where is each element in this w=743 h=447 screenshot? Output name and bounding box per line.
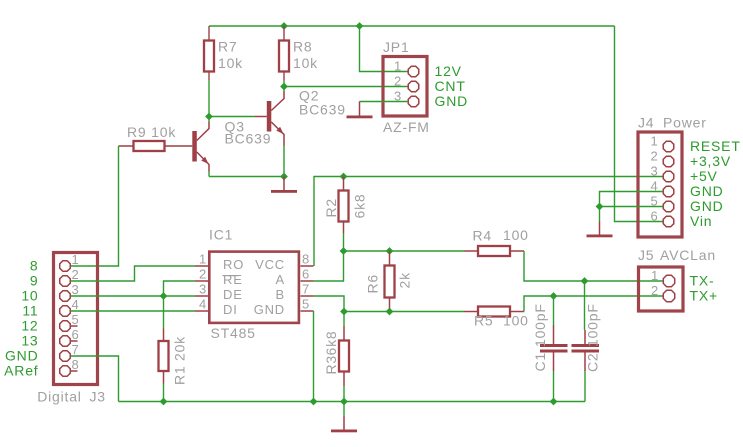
svg-text:BC639: BC639 [299, 102, 346, 118]
svg-text:ST485: ST485 [211, 325, 256, 341]
svg-text:2: 2 [394, 74, 402, 89]
wire IC1 GND to ground rail [313, 311, 315, 402]
pin number J5 2 [651, 283, 659, 298]
pin pad J4-6 [663, 216, 674, 227]
pin number J4 6 [650, 209, 658, 224]
svg-text:100: 100 [503, 227, 529, 243]
svg-text:Vin: Vin [690, 213, 712, 229]
svg-text:J4: J4 [638, 115, 654, 131]
pin number J4 3 [650, 164, 658, 179]
svg-text:BC639: BC639 [225, 131, 272, 147]
pin number IC1-3 [199, 282, 207, 297]
wire JP1 pin3 to ground [360, 101, 409, 103]
net label +3,3V J4-2 [690, 153, 731, 169]
svg-text:R1: R1 [172, 366, 188, 386]
connector J3 box [54, 253, 98, 385]
svg-text:10k: 10k [293, 55, 318, 71]
label IC1 value ST485 [211, 325, 256, 341]
svg-text:A: A [276, 272, 285, 287]
pin stub IC1-4 DI [195, 310, 208, 312]
svg-text:RO: RO [223, 257, 244, 272]
pin stub IC1-6 A [301, 280, 314, 282]
label Q3 [225, 118, 245, 134]
net label ARef [4, 363, 38, 379]
svg-text:9: 9 [30, 273, 39, 289]
svg-text:3: 3 [650, 164, 658, 179]
transistor Q2 base bar [267, 101, 272, 132]
svg-text:7: 7 [72, 342, 80, 357]
net label 8 [30, 258, 39, 274]
wire 12V top rail [209, 25, 615, 27]
transistor Q3 base bar [192, 131, 197, 162]
label R4 [473, 228, 493, 244]
label Digital [37, 389, 82, 405]
wire J4 GND pin5 [600, 206, 664, 208]
svg-text:DI: DI [223, 302, 238, 317]
wire J4 GND pin4 [600, 192, 664, 207]
svg-text:4: 4 [72, 297, 80, 312]
svg-text:1: 1 [651, 268, 659, 283]
label R1 value 20k [172, 336, 188, 361]
label J3 [90, 389, 106, 405]
label R7 value 10k [218, 55, 243, 71]
label R4 value 100 [503, 227, 529, 243]
pin number IC1-1 [199, 252, 207, 267]
wire B pin to node B [314, 296, 345, 312]
pin stub IC1-2 RE [195, 280, 208, 282]
pin number J4 4 [650, 179, 658, 194]
svg-text:DE: DE [223, 287, 243, 302]
resistor R1 [159, 296, 169, 402]
svg-text:10k: 10k [218, 55, 243, 71]
wire R9 to J3 pin 1 [71, 146, 119, 266]
pin stub IC1-8 VCC [301, 265, 314, 267]
svg-text:GND: GND [690, 198, 724, 214]
wire node B rail [344, 311, 464, 313]
net label 9 [30, 273, 39, 289]
net label TX- [690, 273, 715, 289]
transistor Q3 emitter [197, 152, 209, 177]
transistor Q2 emitter [271, 122, 284, 177]
node junction R1 bottom [160, 398, 168, 406]
svg-text:R6: R6 [365, 274, 381, 294]
pin label RE with overline [223, 272, 243, 287]
resistor R2 [339, 177, 349, 252]
net label TX+ [690, 288, 718, 304]
capacitor C1 [540, 296, 568, 402]
net label RESET J4-1 [690, 138, 741, 154]
pin pad JP1-1 [408, 66, 419, 77]
transistor Q3 collector [197, 117, 209, 141]
net label 12 [21, 318, 38, 334]
node junction B node [340, 308, 348, 316]
svg-text:2: 2 [72, 267, 80, 282]
pin number J3 1 [72, 252, 80, 267]
wire emitter rail [209, 176, 284, 178]
label R5 value 100 [503, 313, 529, 329]
pin label VCC [255, 257, 285, 272]
node junction IC1 GND bottom [310, 398, 318, 406]
svg-text:VCC: VCC [255, 257, 285, 272]
pin label DI [223, 302, 238, 317]
svg-text:AZ-FM: AZ-FM [383, 119, 430, 135]
label C2 value 100pF [585, 303, 601, 347]
ground at J4 [587, 207, 613, 238]
pin pad J3-3 [60, 291, 71, 302]
node junction TX+ at C1 [550, 292, 558, 300]
node junction VCC at R2 [340, 173, 348, 181]
svg-text:6: 6 [650, 209, 658, 224]
label IC1 [209, 227, 233, 243]
node junction R3 bottom [340, 398, 348, 406]
svg-text:B: B [276, 287, 285, 302]
pin number IC1-6 [302, 267, 310, 282]
node junction J4 GND [596, 203, 604, 211]
pin number JP1 2 [394, 74, 402, 89]
pin pad J4-1 [663, 141, 674, 152]
wire R4 to TX- [524, 251, 664, 281]
label R1 [172, 366, 188, 386]
pin stub IC1-3 DE [195, 295, 208, 297]
ground at bottom rail [331, 402, 357, 433]
svg-text:2: 2 [650, 149, 658, 164]
resistor R6 [385, 251, 395, 312]
svg-text:1: 1 [394, 59, 402, 74]
svg-text:2: 2 [651, 283, 659, 298]
label AVCLan [660, 247, 716, 263]
pin stub J3-6 [71, 340, 78, 342]
label J4 [638, 115, 654, 131]
label C1 [532, 352, 548, 372]
svg-text:CNT: CNT [435, 78, 466, 94]
svg-text:3: 3 [199, 282, 207, 297]
pin number IC1-4 [199, 297, 207, 312]
node junction top rail at R8 [280, 22, 288, 30]
svg-text:8: 8 [302, 252, 310, 267]
label R8 value 10k [293, 55, 318, 71]
svg-text:1: 1 [650, 134, 658, 149]
svg-text:6: 6 [302, 267, 310, 282]
pin label A [276, 272, 285, 287]
net label 11 [22, 303, 38, 319]
svg-text:100pF: 100pF [585, 303, 601, 347]
net label GND J4-4 [690, 183, 724, 199]
connector J5 box [639, 267, 684, 311]
pin stub J3-5 [71, 325, 78, 327]
pin number J3 5 [72, 312, 80, 327]
svg-text:R3: R3 [323, 355, 339, 375]
net label 13 [21, 333, 38, 349]
pin pad J3-2 [60, 276, 71, 287]
wire J3-2 to RO [71, 266, 196, 281]
label Q2 [299, 88, 319, 104]
svg-text:R2: R2 [323, 198, 339, 218]
svg-text:GND: GND [435, 93, 469, 109]
net label +5V J4-3 [690, 168, 718, 184]
label R3 [323, 355, 339, 375]
svg-text:RESET: RESET [690, 138, 741, 154]
svg-text:8: 8 [72, 357, 80, 372]
svg-text:TX-: TX- [690, 273, 715, 289]
pin number J4 1 [650, 134, 658, 149]
wire Q3 collector to Q2 base [209, 116, 255, 118]
pin label GND [254, 302, 285, 317]
svg-text:+5V: +5V [690, 168, 718, 184]
wire 12V right drop to J4 pin 6 [615, 26, 664, 222]
wire RE branch [164, 281, 196, 296]
wire 12V branch to JP1 pin 1 [360, 26, 409, 72]
node junction R1 top [160, 292, 168, 300]
node junction R2 bottom [340, 247, 348, 255]
pin number J4 5 [650, 194, 658, 209]
resistor R9 [119, 141, 193, 151]
svg-text:5: 5 [302, 297, 310, 312]
wire J3-7 to ground rail [71, 356, 119, 402]
net label CNT [435, 78, 466, 94]
pin pad J3-8 [60, 366, 71, 377]
pin number JP1 3 [394, 89, 402, 104]
svg-text:8: 8 [30, 258, 39, 274]
net label 10 [21, 288, 38, 304]
pin stub J3-8 [71, 370, 78, 372]
wire CNT net to JP1 pin 2 [284, 86, 408, 88]
pin number JP1 1 [394, 59, 402, 74]
ground at Q2 emitter [271, 177, 297, 193]
svg-text:1: 1 [72, 252, 80, 267]
svg-text:ARef: ARef [4, 363, 38, 379]
svg-text:7: 7 [302, 282, 310, 297]
pin pad J3-4 [60, 306, 71, 317]
label AZ-FM [383, 119, 430, 135]
label R9 value [127, 124, 176, 140]
svg-text:6k8: 6k8 [323, 331, 339, 356]
net label 12V [435, 63, 462, 79]
svg-text:TX+: TX+ [690, 288, 718, 304]
label R8 [293, 39, 313, 55]
pin label DE [223, 287, 243, 302]
svg-text:10: 10 [21, 288, 38, 304]
wire node A rail [344, 250, 465, 252]
svg-text:+3,3V: +3,3V [690, 153, 731, 169]
svg-text:C1: C1 [532, 352, 548, 372]
label JP1 [383, 39, 410, 55]
pin number J5 1 [651, 268, 659, 283]
svg-text:R8: R8 [293, 39, 313, 55]
svg-text:GND: GND [690, 183, 724, 199]
svg-text:IC1: IC1 [209, 227, 233, 243]
node junction R7-Q3 collector [205, 113, 213, 121]
pin number J4 2 [650, 149, 658, 164]
pin number J3 3 [72, 282, 80, 297]
node junction top rail at JP1 branch [356, 22, 364, 30]
svg-text:100: 100 [503, 313, 529, 329]
svg-text:J5: J5 [638, 247, 654, 263]
svg-text:6: 6 [72, 327, 80, 342]
connector JP1 box [383, 57, 427, 117]
resistor R3 [339, 312, 349, 402]
svg-text:1: 1 [199, 252, 207, 267]
resistor R4 [464, 246, 524, 256]
svg-text:R9 10k: R9 10k [127, 124, 176, 140]
pin pad J4-5 [663, 201, 674, 212]
pin number IC1-8 [302, 252, 310, 267]
label R6 value 2k [397, 272, 413, 289]
pin pad JP1-3 [408, 96, 419, 107]
svg-text:3: 3 [72, 282, 80, 297]
node junction R8-Q2 collector [280, 83, 288, 91]
pin stub IC1-5 GND [301, 310, 314, 312]
svg-text:4: 4 [199, 297, 207, 312]
svg-text:C2: C2 [585, 353, 601, 373]
pin number IC1-5 [302, 297, 310, 312]
pin pad J5-2 [663, 290, 674, 301]
net label GND J4-5 [690, 198, 724, 214]
pin pad J4-3 [663, 171, 674, 182]
wire A pin to node A [314, 251, 344, 281]
svg-text:5: 5 [72, 312, 80, 327]
label J5 [638, 247, 654, 263]
svg-text:100pF: 100pF [532, 303, 548, 347]
svg-text:Power: Power [663, 115, 707, 131]
capacitor C2 [572, 281, 600, 402]
node junction R6 top [386, 247, 394, 255]
pin pad J3-1 [60, 261, 71, 272]
svg-text:2k: 2k [397, 272, 413, 289]
pin number IC1-2 [199, 267, 207, 282]
svg-text:J3: J3 [90, 389, 106, 405]
label Q3 value BC639 [225, 131, 272, 147]
pin label RO [223, 257, 244, 272]
wire J3-3 to DE [71, 295, 196, 297]
wire R5 to TX+ [524, 296, 664, 312]
ground at JP1 pin3 [347, 102, 373, 119]
pin number J3 2 [72, 267, 80, 282]
wire ground rail bottom [119, 401, 586, 403]
label R6 [365, 274, 381, 294]
pin number J3 6 [72, 327, 80, 342]
svg-text:20k: 20k [172, 336, 188, 361]
resistor R8 [279, 26, 289, 87]
label R5 [474, 313, 494, 329]
pin pad J4-2 [663, 156, 674, 167]
svg-text:13: 13 [21, 333, 38, 349]
svg-text:2: 2 [199, 267, 207, 282]
label Power [663, 115, 707, 131]
pin number IC1-7 [302, 282, 310, 297]
pin pad J4-4 [663, 186, 674, 197]
net label GND [5, 348, 39, 364]
svg-text:AVCLan: AVCLan [660, 247, 716, 263]
pin pad J5-1 [663, 275, 674, 286]
svg-text:Digital: Digital [37, 389, 82, 405]
svg-text:RE: RE [223, 272, 243, 287]
node junction C1 bottom [550, 398, 558, 406]
resistor R7 [204, 26, 214, 117]
svg-text:6k8: 6k8 [352, 194, 368, 219]
pin number J3 8 [72, 357, 80, 372]
transistor Q2 collector [271, 87, 284, 111]
label Q2 value BC639 [299, 102, 346, 118]
pin number J3 7 [72, 342, 80, 357]
label R7 [218, 39, 238, 55]
op-amp IC1 ST485 box [209, 252, 299, 323]
label R2 value 6k8 [352, 194, 368, 219]
net label Vin J4-6 [690, 213, 712, 229]
pin pad J3-5 [60, 321, 71, 332]
connector J4 box [638, 132, 682, 237]
pin number J3 4 [72, 297, 80, 312]
svg-text:R7: R7 [218, 39, 238, 55]
pin label B [276, 287, 285, 302]
pin stub IC1-1 RO [195, 265, 208, 267]
svg-text:12: 12 [21, 318, 38, 334]
label C1 value 100pF [532, 303, 548, 347]
svg-text:JP1: JP1 [383, 39, 410, 55]
transistor Q2 base stub [255, 116, 267, 118]
svg-text:R5: R5 [474, 313, 494, 329]
pin pad J3-7 [60, 351, 71, 362]
node junction R6 bottom [386, 308, 394, 316]
svg-text:GND: GND [254, 302, 285, 317]
label R2 [323, 198, 339, 218]
net label GND JP1 [435, 93, 469, 109]
wire VCC rail [314, 177, 663, 267]
node junction TX- at C2 [581, 277, 589, 285]
node junction Q2 emitter [280, 173, 288, 181]
svg-text:GND: GND [5, 348, 39, 364]
wire J3-4 to DI [71, 310, 196, 312]
label C2 [585, 353, 601, 373]
label R3 value 6k8 [323, 331, 339, 356]
resistor R5 [464, 307, 524, 317]
svg-text:12V: 12V [435, 63, 462, 79]
svg-text:11: 11 [22, 303, 38, 319]
pin pad J3-6 [60, 336, 71, 347]
svg-text:R4: R4 [473, 228, 493, 244]
pin stub IC1-7 B [301, 295, 314, 297]
pin pad JP1-2 [408, 81, 419, 92]
